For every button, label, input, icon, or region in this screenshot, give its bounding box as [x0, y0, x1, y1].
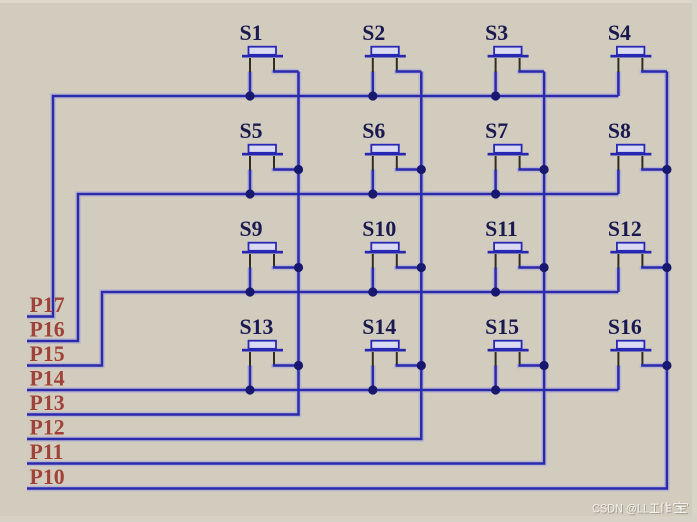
- svg-text:P12: P12: [30, 416, 65, 440]
- junction S15 right pin / column-3 wire: [540, 361, 549, 370]
- junction S14 left pin / row-4 bus: [368, 385, 377, 394]
- svg-text:P11: P11: [30, 440, 64, 464]
- junction S7 left pin / row-2 bus: [491, 189, 500, 198]
- junction S6 left pin / row-2 bus: [368, 189, 377, 198]
- junction S16 right pin / column-4 wire: [662, 361, 671, 370]
- svg-text:P16: P16: [30, 318, 65, 342]
- push-button S1: [242, 47, 299, 96]
- junction S9 right pin / column-1 wire: [294, 263, 303, 272]
- junction S14 right pin / column-2 wire: [417, 361, 426, 370]
- svg-text:S15: S15: [485, 315, 519, 339]
- wire row-2 bus to P16: [27, 194, 618, 341]
- junction S15 left pin / row-4 bus: [491, 385, 500, 394]
- junction S7 right pin / column-3 wire: [540, 165, 549, 174]
- svg-text:S7: S7: [485, 119, 508, 143]
- push-button S9: [242, 243, 299, 292]
- push-button S15: [488, 341, 544, 390]
- svg-text:S2: S2: [362, 21, 385, 45]
- junction S5 right pin / column-1 wire: [294, 165, 303, 174]
- push-button S4: [610, 47, 667, 96]
- junction S2 left pin / row-1 bus: [368, 91, 377, 100]
- svg-text:S4: S4: [608, 21, 631, 45]
- svg-text:CSDN @LL: CSDN @LL: [592, 502, 649, 516]
- push-button S16: [610, 341, 667, 390]
- wire column-2 to P12: [27, 72, 421, 440]
- junction S13 right pin / column-1 wire: [294, 361, 303, 370]
- svg-text:S12: S12: [608, 217, 642, 241]
- svg-text:S13: S13: [240, 315, 274, 339]
- svg-text:P13: P13: [30, 391, 65, 415]
- wire row-4 bus to P14: [27, 389, 618, 392]
- svg-text:S10: S10: [362, 217, 396, 241]
- svg-text:S11: S11: [485, 217, 518, 241]
- push-button S6: [365, 145, 422, 194]
- svg-text:S1: S1: [240, 21, 263, 45]
- svg-text:P17: P17: [30, 293, 65, 317]
- push-button S13: [242, 341, 299, 390]
- wire row-3 bus to P15: [27, 292, 618, 366]
- svg-text:P14: P14: [30, 367, 65, 391]
- svg-text:S9: S9: [240, 217, 263, 241]
- push-button S8: [610, 145, 667, 194]
- wire column-1 to P13: [27, 72, 299, 415]
- junction S3 left pin / row-1 bus: [491, 91, 500, 100]
- junction S13 left pin / row-4 bus: [245, 385, 254, 394]
- push-button S14: [365, 341, 422, 390]
- svg-text:P10: P10: [30, 465, 65, 489]
- junction S1 left pin / row-1 bus: [245, 91, 254, 100]
- junction S10 right pin / column-2 wire: [417, 263, 426, 272]
- junction S12 right pin / column-4 wire: [662, 263, 671, 272]
- svg-text:P15: P15: [30, 342, 65, 366]
- svg-text:S8: S8: [608, 119, 631, 143]
- junction S5 left pin / row-2 bus: [245, 189, 254, 198]
- junction S11 right pin / column-3 wire: [540, 263, 549, 272]
- push-button S10: [365, 243, 422, 292]
- svg-text:S16: S16: [608, 315, 642, 339]
- junction S6 right pin / column-2 wire: [417, 165, 426, 174]
- push-button S11: [488, 243, 544, 292]
- wire column-4 to P10: [27, 72, 667, 489]
- push-button S3: [488, 47, 544, 96]
- svg-text:S14: S14: [362, 315, 396, 339]
- junction S9 left pin / row-3 bus: [245, 287, 254, 296]
- junction S8 right pin / column-4 wire: [662, 165, 671, 174]
- svg-text:S5: S5: [240, 119, 263, 143]
- push-button S7: [488, 145, 544, 194]
- push-button S5: [242, 145, 299, 194]
- junction S11 left pin / row-3 bus: [491, 287, 500, 296]
- wire column-3 to P11: [27, 72, 544, 464]
- watermark CSDN @LL studio: [592, 501, 688, 516]
- push-button S12: [610, 243, 667, 292]
- junction S10 left pin / row-3 bus: [368, 287, 377, 296]
- svg-text:S3: S3: [485, 21, 508, 45]
- wire row-1 bus to P17: [27, 96, 618, 317]
- svg-text:S6: S6: [362, 119, 385, 143]
- push-button S2: [365, 47, 422, 96]
